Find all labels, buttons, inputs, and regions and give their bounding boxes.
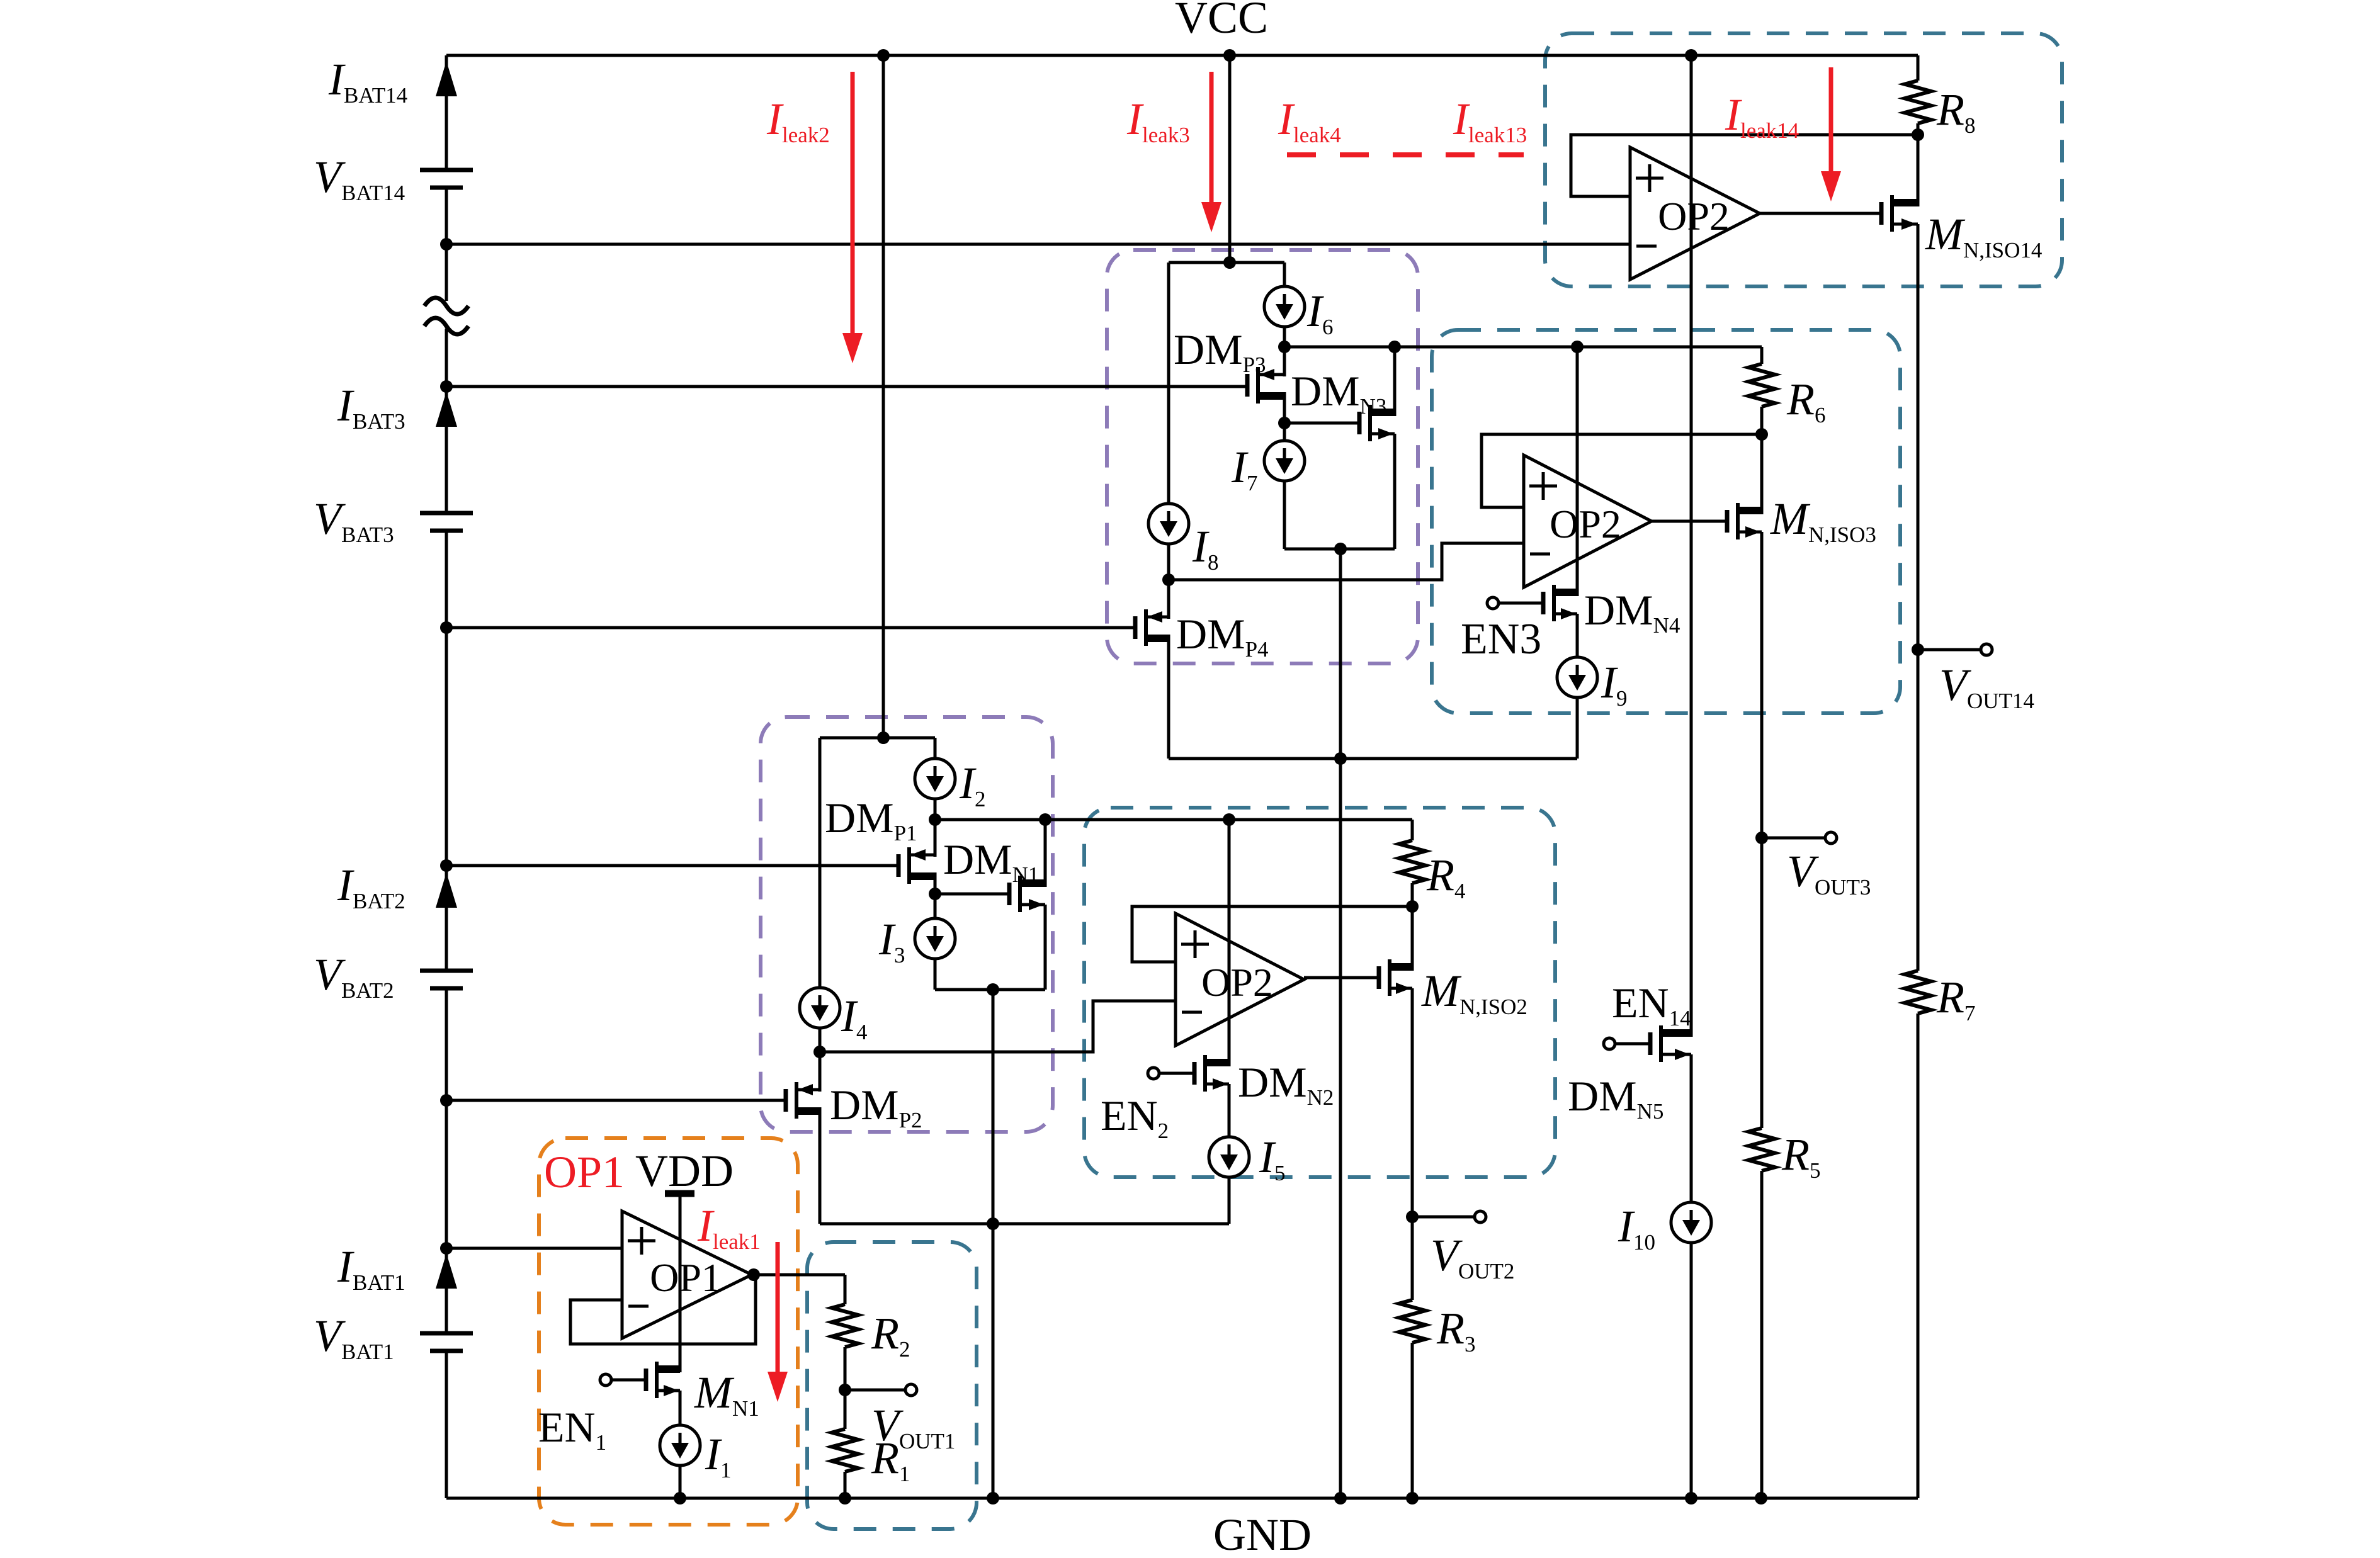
svg-text:OP2: OP2: [1201, 960, 1273, 1005]
node DM_P4 source: [1162, 573, 1175, 586]
current source I2: [915, 759, 955, 799]
svg-text:OP1: OP1: [544, 1147, 625, 1197]
wire DM_P4 node to OP2_3 minus: [1169, 543, 1524, 580]
leakage arrow I_leak2: [851, 72, 855, 339]
node DM_P3 diode: [1278, 417, 1291, 429]
junction DM_N1 drain: [1039, 813, 1051, 826]
wire below break: [445, 329, 448, 513]
wire V_BAT1 to GND: [445, 1352, 448, 1498]
resistor R5: [1748, 1128, 1775, 1171]
stack break symbol: [424, 298, 468, 314]
wire DM_N5 source to I10: [1690, 1054, 1693, 1202]
junction GND R3: [1406, 1492, 1419, 1504]
wire DM_P4 source: [1167, 580, 1170, 619]
leakage arrow I_leak3: [1210, 72, 1214, 208]
terminal V_OUT3: [1825, 832, 1837, 844]
wire diode node to I3: [934, 894, 937, 918]
junction GND block1: [987, 1492, 999, 1504]
node I_BAT1: [440, 1242, 453, 1255]
node DM_P1 diode: [929, 888, 941, 900]
wire I10 to GND: [1690, 1243, 1693, 1498]
svg-text:EN3: EN3: [1461, 615, 1541, 663]
current source I1: [660, 1425, 700, 1465]
arrow I_BAT14: [436, 61, 457, 96]
wire DM_N1 drain: [1044, 820, 1047, 887]
wire EN_1 to gate: [613, 1379, 646, 1382]
wire R1 to GND: [844, 1472, 847, 1498]
wire I6 to node: [1283, 327, 1286, 347]
wire V_BAT3 to V_BAT2: [445, 532, 448, 971]
wire below V_BAT14: [445, 189, 448, 301]
wire VCC corner to R8: [1917, 55, 1920, 81]
svg-text:VCC: VCC: [1175, 0, 1268, 43]
wire DM_P2 node to OP2_2 minus: [820, 1001, 1176, 1052]
current source I3: [915, 918, 955, 959]
node V_OUT14: [1912, 643, 1924, 656]
wire M_N1 source to I1: [679, 1391, 682, 1425]
wire diode node to I7: [1283, 423, 1286, 441]
node I_BAT3: [440, 380, 453, 393]
arrow I_BAT3: [436, 392, 457, 427]
junction GND block3: [1334, 1492, 1347, 1504]
wire node bat3- to DM_P4 gate: [446, 626, 1135, 629]
wire V_OUT14 tap: [1918, 648, 1980, 652]
output divider R1 R2 dashed box: [807, 1242, 977, 1529]
channel-14 output stage dashed box: [1545, 33, 2062, 286]
node I_BAT2: [440, 859, 453, 872]
junction block1 bottom: [987, 983, 999, 996]
wire OP2_2 output to M_N,ISO2 gate: [1304, 976, 1379, 979]
node OP1 output: [747, 1268, 760, 1281]
wire node V14- to OP2_14 minus input: [446, 243, 1630, 246]
svg-text:OP1: OP1: [650, 1255, 722, 1300]
wire I4 column upper: [819, 738, 822, 988]
junction block1 top: [877, 731, 890, 744]
wire I6 feed: [1283, 262, 1286, 286]
resistor R3: [1399, 1300, 1425, 1343]
wire M_N,ISO3 source down: [1760, 532, 1764, 838]
wire R8 bottom to node: [1917, 123, 1920, 135]
resistor R2: [832, 1304, 858, 1347]
wire DM_P1 block top rail: [820, 737, 935, 740]
wire VCC to DM_N5 drain: [1690, 55, 1693, 1037]
wire DM_P3 bottom to diode node: [1283, 392, 1286, 423]
wire DM_P3 block bottom: [1284, 548, 1395, 551]
current source I9: [1557, 657, 1597, 697]
wire V_OUT3 tap: [1762, 837, 1824, 840]
resistor R6 top wire: [1760, 347, 1764, 364]
wire R4 top: [1411, 820, 1414, 840]
junction GND R5: [1755, 1492, 1767, 1504]
node R8 bottom: [1912, 128, 1924, 141]
wire DM_N4 source to I9: [1576, 614, 1579, 657]
wire OP1 feedback: [570, 1275, 756, 1344]
wire DM_P3 drain rail to R6: [1284, 346, 1762, 349]
op-amp U2 (OP2 channel2): [1176, 913, 1304, 1046]
transistor M_N,ISO2: [1377, 966, 1381, 989]
wire OP1 out to R2: [844, 1275, 847, 1304]
wire block3 bottom to GND: [1339, 549, 1342, 1498]
resistor R7: [1905, 971, 1931, 1013]
wire I8 column: [1167, 262, 1170, 504]
terminal EN_14: [1604, 1038, 1615, 1049]
op-amp U14 (OP2 channel14): [1630, 147, 1760, 279]
node V_BAT3 minus: [440, 621, 453, 634]
wire EN3 to gate: [1500, 602, 1543, 605]
wire I7 to block bottom: [1283, 481, 1286, 549]
resistor R8: [1905, 81, 1931, 123]
wire I9 to rail: [1576, 697, 1579, 759]
wire GND bottom rail: [446, 1497, 1918, 1500]
wire diode node to DM_N3 gate: [1284, 422, 1359, 425]
terminal EN_2: [1148, 1068, 1159, 1079]
junction drain rail mid: [1334, 752, 1347, 765]
node DM_P1 drain: [929, 813, 941, 826]
op-amp OP1: [622, 1211, 752, 1338]
wire DM_P2 drain down: [819, 1107, 822, 1224]
transistor DM_N3: [1357, 412, 1362, 434]
terminal EN_1: [600, 1374, 611, 1386]
transistor DM_P3: [1245, 374, 1250, 397]
wire R6 node to M_N,ISO3 drain: [1760, 434, 1764, 514]
resistor R1: [832, 1429, 858, 1472]
terminal V_OUT1: [905, 1384, 917, 1396]
wire supply into OP2_3: [1576, 347, 1579, 596]
transistor DM_P1: [897, 854, 901, 877]
current source I7: [1264, 441, 1305, 481]
transistor M_N,ISO3: [1725, 510, 1730, 533]
wire OP1 output: [752, 1273, 845, 1277]
wire EN_14 to gate: [1616, 1042, 1650, 1046]
wire V_OUT3 to R5: [1760, 838, 1764, 1128]
transistor DM_N1: [1007, 883, 1012, 905]
current source I6: [1264, 286, 1305, 327]
resistor R6: [1748, 364, 1775, 407]
wire OP2_3 output to M_N,ISO3 gate: [1652, 520, 1727, 523]
node DM_P2 source: [813, 1046, 826, 1058]
wire R5 to GND: [1760, 1171, 1764, 1498]
wire I2 feed: [934, 738, 937, 759]
VDD supply bar: [665, 1190, 694, 1197]
wire node bat1 to OP1 plus input: [446, 1247, 622, 1250]
junction GND R1: [839, 1492, 851, 1504]
wire R3 to GND: [1411, 1343, 1414, 1498]
wire VDD to M_N1 drain: [679, 1194, 682, 1372]
wire EN_2 to gate: [1160, 1072, 1194, 1075]
wire DM_P3 top: [1283, 347, 1286, 376]
leakage dashed I_leak4-I_leak13: [1287, 152, 1524, 157]
transistor DM_N5: [1648, 1032, 1653, 1055]
terminal V_OUT2: [1475, 1211, 1486, 1222]
svg-text:VDD: VDD: [635, 1146, 734, 1196]
wire I5 to rail: [1228, 1177, 1231, 1224]
arrow I_BAT2: [436, 872, 457, 908]
wire DM_P2 drain rail: [820, 1222, 1229, 1226]
battery V_BAT14: [420, 168, 473, 172]
wire I1 to GND: [679, 1465, 682, 1498]
junction DM_N3 drain: [1388, 341, 1401, 353]
wire V_OUT2 tap: [1412, 1216, 1473, 1219]
battery V_BAT2: [420, 969, 473, 973]
wire OP2_14 output to M_N,ISO14 gate: [1760, 212, 1881, 215]
wire DM_N3 source: [1393, 434, 1397, 549]
op-amp U3 (OP2 channel3): [1524, 455, 1652, 587]
transistor DM_P2: [784, 1089, 788, 1112]
transistor M_N1: [644, 1369, 649, 1391]
wire R8 node to M_N,ISO14 drain: [1917, 135, 1920, 206]
arrow I_BAT1: [436, 1253, 457, 1289]
wire M_N,ISO14 source down: [1917, 224, 1920, 650]
node V_OUT2: [1406, 1211, 1419, 1223]
wire DM_P1 bottom to diode node: [934, 872, 937, 894]
junction block3 top: [1223, 256, 1236, 269]
wire R4 node to M_N,ISO2 drain: [1411, 906, 1414, 971]
wire R8 feedback to OP2_14 plus: [1571, 135, 1918, 196]
current source I10: [1671, 1202, 1711, 1243]
node V_OUT1: [839, 1384, 851, 1396]
wire battery column top: [445, 55, 448, 170]
wire DM_N3 drain: [1393, 347, 1397, 416]
wire diode node to DM_N1 gate: [935, 893, 1009, 896]
wire DM_P4 drain rail: [1169, 757, 1577, 760]
wire V_BAT2 to V_BAT1: [445, 990, 448, 1333]
channel-2 output stage dashed box: [1084, 808, 1555, 1177]
node DM_P3 drain: [1278, 341, 1291, 353]
resistor R4: [1399, 840, 1425, 883]
junction VCC/DM_P1 feed: [877, 49, 890, 62]
junction GND I1: [674, 1492, 686, 1504]
current source I5: [1209, 1137, 1249, 1177]
wire VCC top rail: [446, 54, 1918, 57]
svg-text:OP2: OP2: [1550, 502, 1621, 546]
wire I2 to node: [934, 799, 937, 820]
wire V_OUT14 to R7: [1917, 650, 1920, 971]
detection block DM_P3 dashed box: [1107, 250, 1418, 663]
junction GND I10: [1685, 1492, 1697, 1504]
leakage arrow I_leak14: [1829, 67, 1833, 178]
current source I8: [1148, 504, 1189, 544]
junction block3 bottom: [1334, 543, 1347, 555]
wire M_N,ISO2 source down: [1411, 988, 1414, 1217]
wire R7 to GND: [1917, 1013, 1920, 1498]
current source I4: [800, 988, 840, 1028]
terminal V_OUT14: [1981, 644, 1992, 655]
junction DM_P2 drain rail: [987, 1217, 999, 1230]
node R4 bottom: [1406, 900, 1419, 913]
terminal EN3: [1487, 597, 1499, 609]
op-amp block OP1 dashed box: [539, 1138, 798, 1525]
wire V_OUT2 to R3: [1411, 1217, 1414, 1300]
wire R6 bottom to node: [1760, 407, 1764, 434]
wire DM_P1 block bottom: [935, 988, 1045, 991]
wire I8 to DM_P4 node: [1167, 544, 1170, 580]
transistor M_N,ISO14: [1879, 202, 1884, 225]
channel-3 output stage dashed box: [1432, 330, 1900, 713]
transistor DM_N2: [1193, 1062, 1197, 1085]
wire DM_P3 block top rail: [1169, 261, 1284, 264]
junction VCC/DM_P3 feed: [1223, 49, 1236, 62]
wire node bat2 to DM_N1 gate: [446, 864, 898, 867]
node V_OUT3: [1755, 832, 1768, 844]
wire VCC to DM_P1 block: [882, 55, 885, 738]
wire block1 bottom to GND: [992, 990, 995, 1498]
wire DM_N2 source to I5: [1228, 1084, 1231, 1137]
junction OP2_3 supply: [1571, 341, 1584, 353]
wire R6 feedback to OP2_3 plus: [1482, 434, 1762, 507]
wire V_OUT1 tap: [845, 1389, 904, 1392]
wire I4 to DM_P2 node: [819, 1028, 822, 1052]
wire supply into OP2_2: [1228, 820, 1231, 1066]
transistor DM_N4: [1541, 592, 1546, 614]
wire R4 feedback to OP2_2 plus: [1132, 906, 1412, 962]
wire I3 to block bottom: [934, 959, 937, 990]
junction OP2_2 supply: [1223, 813, 1235, 826]
svg-text:GND: GND: [1213, 1510, 1312, 1558]
node V_BAT2 minus: [440, 1094, 453, 1107]
svg-text:OP2: OP2: [1658, 194, 1730, 239]
wire DM_P1 top: [934, 820, 937, 857]
wire node bat3 to DM_P3 gate: [446, 385, 1247, 388]
wire node bat2- to DM_P2 gate: [446, 1099, 786, 1102]
wire VCC to DM_P3 block: [1228, 55, 1232, 262]
wire R2 to R1: [844, 1347, 847, 1429]
junction VCC/DM_N5 feed: [1685, 49, 1697, 62]
transistor DM_P4: [1133, 616, 1138, 639]
wire R4 bottom to node: [1411, 883, 1414, 906]
battery V_BAT3: [420, 511, 473, 516]
node V_BAT14 minus: [440, 238, 453, 251]
wire DM_P2 source: [819, 1052, 822, 1092]
wire DM_P1 drain rail to R4: [935, 818, 1412, 821]
detection block DM_P1 dashed box: [761, 717, 1053, 1132]
node R6 bottom: [1755, 428, 1768, 441]
wire DM_P4 drain down: [1167, 635, 1170, 759]
leakage arrow I_leak1: [776, 1242, 780, 1378]
wire DM_N1 source: [1044, 905, 1047, 990]
battery V_BAT1: [420, 1331, 473, 1336]
